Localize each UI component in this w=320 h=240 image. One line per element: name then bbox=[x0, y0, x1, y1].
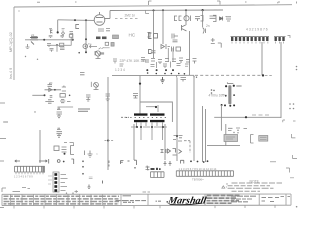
corner far bbox=[286, 168, 290, 173]
node dot bbox=[185, 9, 187, 11]
cap top bracket bbox=[227, 82, 233, 83]
wire drop VR to band bbox=[167, 48, 169, 62]
frame wire right bbox=[164, 124, 166, 160]
mark above note bbox=[290, 177, 294, 179]
transformer core dash line bbox=[126, 117, 168, 119]
node dot bbox=[225, 95, 227, 97]
note side dot bbox=[226, 183, 227, 184]
connector PL1 black pin header bbox=[53, 172, 59, 192]
HT rail wire bbox=[110, 9, 223, 12]
ground below VR1 bbox=[26, 44, 30, 49]
gray pcb trace under bbox=[58, 106, 74, 108]
tap junction dots bbox=[136, 126, 164, 128]
wire drop bbox=[172, 48, 174, 62]
svg-text:≈: ≈ bbox=[96, 152, 98, 156]
tap dash row bbox=[131, 126, 167, 128]
mark below SK1 bbox=[22, 188, 30, 189]
rail end dashes bbox=[214, 9, 223, 11]
corner dot bbox=[296, 206, 298, 208]
dashed net tail bbox=[265, 74, 272, 76]
svg-text:MP-1(C)-02: MP-1(C)-02 bbox=[9, 32, 13, 52]
stray dot bbox=[34, 111, 35, 112]
capacitor C1 bbox=[47, 44, 51, 48]
ground GND8 bbox=[164, 161, 172, 165]
diode D2 bbox=[220, 17, 223, 21]
delta revision mark bbox=[222, 186, 225, 188]
zone tick marks top bbox=[37, 1, 297, 5]
bus wire long bbox=[112, 74, 194, 76]
svg-text:4700u 100V: 4700u 100V bbox=[209, 94, 228, 98]
relay RL2 cluster bbox=[54, 146, 74, 155]
wire center drop bbox=[56, 45, 58, 52]
bracket low bbox=[95, 52, 96, 55]
arrow mark a bbox=[15, 160, 20, 162]
electrolytic capacitor C30 body bbox=[228, 85, 231, 104]
ground sym low bbox=[85, 151, 93, 158]
resistor R6a bbox=[49, 36, 53, 38]
fuse block F2 bbox=[259, 136, 268, 142]
capacitor C5 cluster bbox=[69, 32, 73, 38]
stray speck bbox=[18, 10, 19, 11]
relay RL1 coil bbox=[174, 16, 191, 22]
cap C15 group bbox=[86, 95, 91, 101]
wire CON1 pin to dashed net bbox=[261, 42, 263, 75]
hook marks right of OC bbox=[64, 143, 74, 146]
wire stub bbox=[90, 82, 92, 87]
wire drop bbox=[162, 10, 164, 44]
trimmer VR3 bbox=[94, 82, 99, 89]
resistor R7 bbox=[50, 96, 53, 98]
capacitor C14 bbox=[80, 73, 85, 75]
capacitor C13 bbox=[211, 38, 215, 44]
svg-text:1 2 3 4 5 6 7 8 9 10 11 12 13: 1 2 3 4 5 6 7 8 9 10 11 12 13 14 bbox=[179, 167, 217, 171]
svg-text:2M2 1n: 2M2 1n bbox=[125, 13, 136, 17]
node dot bbox=[72, 39, 74, 41]
transformer T1 secondary winding bars bbox=[134, 120, 148, 122]
mark double dash bbox=[146, 166, 150, 171]
small black block bbox=[151, 168, 161, 170]
connector CON2 pins bbox=[275, 37, 285, 41]
scale cell marks bbox=[262, 197, 285, 202]
wire Q3 collector down bbox=[189, 31, 191, 76]
svg-text:TB7806≈: TB7806≈ bbox=[192, 177, 204, 181]
slant marks bbox=[99, 47, 110, 49]
transformer T1 primary winding bars bbox=[134, 113, 148, 115]
ground below bus bbox=[161, 77, 165, 83]
stub dashes upper bbox=[252, 114, 270, 116]
corner mark right low bbox=[292, 134, 296, 138]
sheet cell mark bbox=[288, 196, 291, 198]
dash right bbox=[293, 120, 296, 122]
transformer box top bbox=[140, 102, 172, 122]
dashed coupling wire bbox=[115, 18, 140, 20]
capacitor C11 bbox=[226, 17, 231, 21]
node dot bbox=[85, 38, 87, 40]
wire lower bbox=[47, 44, 72, 46]
dash stub at node bbox=[105, 140, 114, 142]
stray dot bbox=[25, 56, 26, 57]
node dot bbox=[202, 9, 204, 11]
node dot on HT line bbox=[245, 116, 247, 118]
diode bridge BR1 bbox=[161, 149, 182, 156]
wire cathode chain vertical bbox=[85, 20, 87, 52]
component band small parts bbox=[146, 58, 197, 64]
terminal strip TB2 scallops bbox=[176, 171, 233, 177]
svg-text:2n: 2n bbox=[206, 24, 210, 28]
potentiometer VR1 bbox=[30, 38, 38, 45]
trimmer VR2 bbox=[95, 51, 100, 59]
note line 3 bbox=[228, 187, 274, 189]
SK1 dark end cell bbox=[42, 166, 45, 172]
resistor R4 box bbox=[113, 35, 119, 39]
wire drop bbox=[202, 10, 204, 27]
svg-text:≈2: ≈2 bbox=[151, 50, 155, 54]
revision table dense text left bbox=[4, 196, 120, 204]
capacitor C6 bbox=[48, 83, 53, 86]
SK1 pin ticks bbox=[16, 172, 43, 174]
PL1 right labels bbox=[61, 175, 68, 191]
node dot on dashed net bbox=[262, 74, 264, 76]
left lead dots bbox=[121, 116, 129, 118]
dash far bbox=[270, 161, 276, 163]
connector J4 bbox=[149, 50, 152, 54]
frame wire left bbox=[133, 124, 135, 160]
wire HT feed down bbox=[139, 76, 141, 114]
bracket component bbox=[251, 135, 254, 144]
strip outline bbox=[2, 194, 291, 206]
wire vertical node A bbox=[72, 34, 74, 40]
stray dash mid-left bbox=[4, 121, 8, 123]
logo underline swash bbox=[170, 203, 203, 205]
wire Q2 emitter arrow bbox=[90, 45, 98, 48]
node dot right of cap bbox=[233, 85, 235, 87]
connector CON1 pins bbox=[231, 37, 269, 41]
connector SK1 (mains inlet) bbox=[15, 166, 45, 172]
resistor R13 bbox=[151, 51, 156, 53]
note line 2 bbox=[228, 185, 270, 187]
junction dots pair bbox=[211, 89, 215, 94]
node dot bbox=[85, 51, 87, 53]
wire corner top right hook bbox=[218, 43, 221, 48]
HT line horizontal bbox=[214, 116, 281, 118]
speaker jack J3 bbox=[149, 33, 158, 39]
lower rail horizontal bbox=[207, 145, 240, 147]
dash right of cap bbox=[236, 85, 241, 87]
border left bbox=[13, 7, 15, 80]
note line 1 bbox=[232, 182, 283, 184]
node dot center lower bbox=[56, 44, 58, 46]
capacitor C3 to ground bbox=[60, 48, 65, 50]
checked cell text bbox=[156, 200, 162, 202]
transistor Q2 bbox=[83, 44, 88, 49]
connector J2 bbox=[148, 33, 151, 38]
note line 4 bbox=[232, 190, 261, 192]
cap C17 on mains feed bbox=[133, 94, 138, 99]
node dot bbox=[162, 9, 164, 11]
node dot bbox=[43, 39, 45, 41]
PL1 left labels bbox=[48, 176, 52, 184]
wire input jack to VR1 bbox=[25, 39, 73, 41]
band left extra marks bbox=[113, 58, 145, 67]
wire input bbox=[32, 94, 44, 96]
border top bbox=[14, 5, 292, 7]
node dot pair bbox=[69, 95, 71, 97]
cap bottom dots bbox=[224, 104, 226, 106]
valve V1 (triode) bbox=[94, 12, 105, 25]
wire long vertical pair c bbox=[202, 106, 204, 162]
node dot bbox=[85, 19, 87, 21]
node dot left of cap bbox=[225, 85, 227, 87]
pin ticks below CON1 bbox=[232, 42, 283, 44]
node dot on a bbox=[176, 135, 178, 137]
junction at bus bbox=[175, 75, 178, 77]
svg-text:≈: ≈ bbox=[222, 93, 224, 97]
wire short vertical bbox=[220, 105, 222, 131]
dashes x108 bbox=[108, 161, 110, 167]
capacitor C10 bbox=[195, 16, 203, 22]
rectifier label lines bbox=[226, 137, 235, 139]
capacitor C12 bbox=[172, 34, 178, 42]
connector CON2 top bar bbox=[274, 36, 286, 38]
resistor R1 bbox=[60, 43, 64, 46]
node dot bbox=[57, 31, 59, 33]
bracket conn bbox=[181, 160, 184, 163]
resistor R5b bbox=[111, 43, 114, 47]
wire drop left bbox=[153, 10, 155, 58]
opto isolator OC2 bbox=[57, 128, 63, 137]
wire into winding bbox=[157, 105, 159, 112]
wire long vertical b bbox=[193, 76, 195, 162]
strip top marks bbox=[13, 191, 21, 193]
dot top of short vert bbox=[221, 104, 223, 106]
resistor R5 bbox=[105, 42, 108, 45]
wire branch vertical right bbox=[70, 37, 72, 45]
svg-text:HC: HC bbox=[129, 32, 136, 37]
resistor R3 (dark band) bbox=[102, 37, 107, 40]
bracket right of CON2 bbox=[288, 36, 291, 39]
corner mark right lower bbox=[293, 155, 298, 159]
resistor R20 cluster bbox=[173, 136, 183, 142]
svg-text:Iss.4 9: Iss.4 9 bbox=[9, 68, 13, 79]
svg-text:22: 22 bbox=[31, 33, 35, 37]
dotted line col bbox=[82, 160, 84, 174]
diode D6 bbox=[62, 32, 65, 35]
node dot bbox=[64, 153, 66, 155]
wire CON2 pin down long bbox=[280, 42, 282, 118]
marks above D6 bbox=[62, 29, 65, 30]
left margin registration ticks bbox=[0, 103, 8, 208]
connector J1 bbox=[76, 25, 79, 29]
diode D4 bbox=[161, 44, 170, 49]
middle cell text bbox=[116, 196, 147, 203]
mark dash dot bbox=[128, 160, 130, 162]
node dot mid bbox=[107, 140, 109, 142]
svg-text:4 3 2 1 9 8 7 6: 4 3 2 1 9 8 7 6 bbox=[246, 28, 268, 32]
resistor marks above rectifier bbox=[228, 128, 247, 131]
dashed net wire bbox=[195, 74, 261, 76]
resistor R6b bbox=[60, 36, 64, 38]
wire drop from junction bbox=[57, 20, 59, 32]
dot pair low bbox=[66, 193, 67, 194]
svg-text:1 2 3 4: 1 2 3 4 bbox=[115, 68, 125, 72]
capacitor C4 bbox=[98, 29, 110, 32]
wire drop bbox=[185, 10, 187, 24]
stray dot bbox=[37, 59, 38, 60]
capacitor C2 to ground bbox=[50, 49, 54, 52]
border bottom bbox=[2, 204, 291, 206]
node dots row bbox=[190, 160, 208, 163]
right margin dots a bbox=[289, 66, 297, 110]
transistor Q4 bbox=[49, 29, 52, 34]
ground GND7 bbox=[88, 185, 91, 189]
title text block bbox=[207, 196, 241, 204]
mark F bbox=[121, 161, 124, 165]
node dot bbox=[155, 106, 157, 108]
drawing number text bbox=[231, 196, 257, 202]
opto isolator OC1 bbox=[57, 108, 63, 118]
terminal strip TB1 left bbox=[151, 172, 165, 178]
mark exclam bbox=[102, 181, 104, 184]
wire to Q1 base bbox=[58, 19, 94, 22]
mark bracket dot bbox=[134, 160, 137, 165]
connector CON1 top bar bbox=[231, 36, 270, 38]
node dot bbox=[44, 94, 46, 96]
dots pair bbox=[193, 76, 194, 77]
resistor R15 below bus bbox=[181, 78, 187, 82]
wire channel select bbox=[39, 130, 41, 163]
capacitor C7 bbox=[45, 100, 54, 103]
rectifier block REC1 bbox=[224, 135, 238, 142]
resistor R2 (dark band) bbox=[96, 37, 101, 40]
arrow mark b bbox=[39, 159, 49, 164]
resistor R8 box bbox=[60, 94, 65, 98]
resistor R10 bbox=[210, 15, 217, 21]
label lines mid-left bbox=[78, 109, 90, 111]
node dot bbox=[74, 19, 76, 21]
band extra parts row2 bbox=[151, 62, 189, 69]
svg-text:1 2 3 4 5 6 7 8 9: 1 2 3 4 5 6 7 8 9 bbox=[14, 174, 33, 178]
resistor R12 bbox=[172, 47, 181, 52]
inner stub bbox=[146, 106, 156, 108]
small label bbox=[89, 177, 93, 179]
wire long vertical pair d bbox=[205, 109, 207, 162]
bracket bbox=[71, 159, 73, 164]
node dot bbox=[54, 89, 56, 91]
transistor Q3 bbox=[182, 25, 187, 32]
svg-text:≈-: ≈- bbox=[225, 15, 228, 19]
diode D5 row bbox=[45, 86, 67, 92]
wire vertical long center-left bbox=[107, 77, 109, 170]
cap C16 group bbox=[106, 94, 111, 101]
wire hook to diode stack bbox=[184, 141, 190, 153]
winding taps down bbox=[136, 122, 162, 140]
wire vertical e bbox=[225, 124, 227, 146]
capacitor C8 bbox=[60, 100, 71, 103]
corner mark right bbox=[283, 120, 285, 122]
wire V1 anode to rail bbox=[105, 11, 110, 19]
node dot bbox=[139, 83, 141, 85]
rail tab bbox=[146, 10, 150, 13]
lamp LP1 bbox=[57, 160, 60, 163]
node dot bbox=[233, 94, 235, 96]
wire long vertical a bbox=[176, 78, 178, 162]
below strip ticks bbox=[14, 205, 275, 208]
junction dots row bbox=[146, 69, 185, 75]
node dot bbox=[153, 9, 155, 11]
node dot bbox=[63, 161, 65, 163]
diode D3 bbox=[203, 28, 206, 34]
